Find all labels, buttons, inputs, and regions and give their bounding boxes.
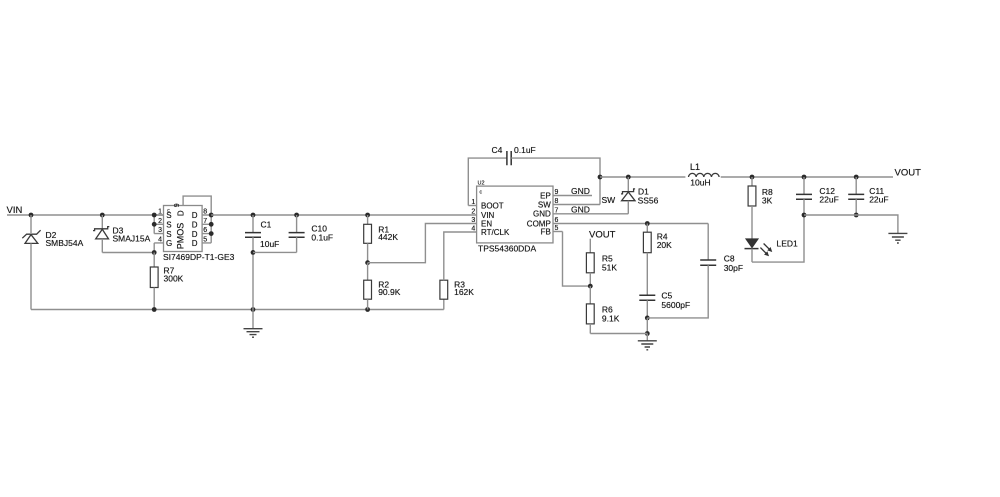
- resistor R7: [150, 253, 183, 310]
- svg-text:D: D: [192, 239, 198, 248]
- node GND label pin7: [571, 204, 590, 214]
- resistor R8: [748, 177, 773, 239]
- node VOUT net label at R5: [589, 230, 616, 253]
- svg-text:3K: 3K: [762, 196, 773, 206]
- svg-text:0.1uF: 0.1uF: [311, 232, 333, 242]
- svg-text:VOUT: VOUT: [589, 230, 616, 241]
- node GND label pin9: [571, 186, 590, 196]
- wire output gnd tie: [804, 215, 898, 233]
- svg-text:10uF: 10uF: [260, 239, 279, 249]
- wire COMP: [645, 221, 650, 226]
- svg-text:2: 2: [471, 209, 475, 216]
- svg-text:22uF: 22uF: [869, 195, 888, 205]
- zener diode D2: [22, 215, 83, 310]
- wire SW to D1 and L1: [600, 175, 685, 180]
- svg-text:9.1K: 9.1K: [602, 314, 620, 324]
- LED LED1: [745, 239, 799, 263]
- svg-text:2: 2: [158, 218, 162, 225]
- wire D3 anode to gate node: [102, 252, 154, 254]
- capacitor C8: [647, 224, 743, 318]
- junction at D3: [100, 213, 105, 218]
- wire FB: [563, 232, 593, 289]
- wire VIN rail left: [7, 214, 164, 216]
- svg-text:7: 7: [203, 218, 207, 225]
- wire L1 to VOUT: [721, 175, 893, 180]
- svg-text:S: S: [166, 230, 171, 239]
- svg-text:C1: C1: [261, 220, 272, 230]
- svg-text:SMAJ15A: SMAJ15A: [113, 233, 151, 243]
- svg-text:EP: EP: [540, 191, 551, 200]
- svg-text:RT/CLK: RT/CLK: [481, 228, 510, 237]
- svg-text:D: D: [177, 210, 186, 216]
- svg-text:5: 5: [203, 236, 207, 243]
- node VOUT net label right: [895, 168, 922, 179]
- svg-text:GND: GND: [533, 210, 551, 219]
- wire bottom rail: [31, 307, 444, 312]
- ground left: [244, 310, 263, 338]
- node VIN net label: [7, 205, 23, 216]
- svg-text:GND: GND: [571, 186, 590, 196]
- resistor R5: [586, 253, 617, 286]
- resistor R2: [364, 263, 401, 310]
- svg-text:SMBJ54A: SMBJ54A: [46, 238, 84, 248]
- wire C10 to C1 tie: [253, 251, 297, 253]
- svg-text:3: 3: [158, 227, 162, 234]
- svg-text:1: 1: [158, 209, 162, 216]
- svg-text:22uF: 22uF: [819, 195, 838, 205]
- svg-text:SW: SW: [602, 195, 616, 205]
- wire PMOS pin9 loop: [183, 196, 214, 243]
- wire to mid ground: [590, 318, 649, 336]
- svg-text:9: 9: [174, 203, 181, 207]
- svg-text:6: 6: [203, 227, 207, 234]
- svg-text:L1: L1: [690, 162, 700, 172]
- svg-text:1: 1: [471, 199, 475, 206]
- svg-text:300K: 300K: [164, 273, 184, 283]
- wire LED return: [752, 215, 804, 262]
- wire PMOS source tie: [152, 213, 157, 234]
- wire EN from R1/R2 junction: [365, 224, 476, 266]
- zener diode D3: [93, 215, 151, 253]
- svg-text:0.1uF: 0.1uF: [514, 145, 536, 155]
- svg-text:U2: U2: [478, 181, 485, 187]
- diode D1 schottky: [621, 177, 659, 214]
- svg-text:VOUT: VOUT: [895, 168, 922, 179]
- svg-text:162K: 162K: [454, 287, 474, 297]
- capacitor C5: [639, 291, 690, 321]
- node SW junction: [598, 175, 616, 205]
- svg-text:PMOS: PMOS: [176, 223, 186, 250]
- svg-text:SI7469DP-T1-GE3: SI7469DP-T1-GE3: [163, 252, 235, 262]
- svg-text:D: D: [192, 221, 198, 230]
- svg-text:4: 4: [471, 226, 475, 233]
- junction at D2: [29, 213, 34, 218]
- IC U2 TPS54360DDA: [468, 181, 708, 254]
- svg-text:6: 6: [555, 217, 559, 224]
- svg-text:D: D: [192, 230, 198, 239]
- svg-text:LED1: LED1: [777, 239, 799, 249]
- svg-text:8: 8: [203, 209, 207, 216]
- svg-text:4: 4: [158, 236, 162, 243]
- svg-text:D: D: [192, 211, 198, 220]
- svg-text:51K: 51K: [602, 263, 617, 273]
- svg-text:90.9K: 90.9K: [378, 287, 401, 297]
- resistor R1: [364, 213, 399, 263]
- svg-text:5600pF: 5600pF: [661, 300, 690, 310]
- svg-text:8: 8: [555, 198, 559, 205]
- capacitor C1: [245, 213, 279, 310]
- capacitor C12: [796, 177, 839, 217]
- capacitor C4 with boot loop: [468, 145, 600, 206]
- inductor L1: [689, 162, 720, 188]
- capacitor C10: [289, 213, 334, 253]
- svg-text:20K: 20K: [657, 240, 672, 250]
- svg-text:5: 5: [555, 225, 559, 232]
- resistor R4: [643, 224, 672, 296]
- svg-text:GND: GND: [571, 204, 590, 214]
- svg-text:10uH: 10uH: [690, 178, 710, 188]
- svg-text:7: 7: [555, 207, 559, 214]
- svg-text:FB: FB: [541, 227, 551, 236]
- wire PMOS gate down: [152, 243, 157, 255]
- resistor R6: [586, 286, 619, 333]
- wire VIN rail right of PMOS: [211, 214, 476, 216]
- ground mid: [638, 334, 657, 350]
- capacitor C11: [848, 177, 888, 217]
- svg-text:SW: SW: [538, 200, 551, 209]
- svg-text:BOOT: BOOT: [481, 201, 504, 210]
- resistor R3: [440, 232, 477, 310]
- svg-text:S: S: [166, 221, 171, 230]
- svg-text:SS56: SS56: [638, 196, 659, 206]
- svg-text:30pF: 30pF: [724, 263, 743, 273]
- svg-text:3: 3: [471, 217, 475, 224]
- svg-text:TPS54360DDA: TPS54360DDA: [478, 244, 536, 254]
- svg-text:G: G: [166, 239, 172, 248]
- svg-text:9: 9: [555, 189, 559, 196]
- svg-text:C4: C4: [492, 145, 503, 155]
- ground right: [888, 233, 907, 243]
- transistor Q1 PMOS SI7469DP: [154, 203, 234, 262]
- svg-text:442K: 442K: [378, 232, 398, 242]
